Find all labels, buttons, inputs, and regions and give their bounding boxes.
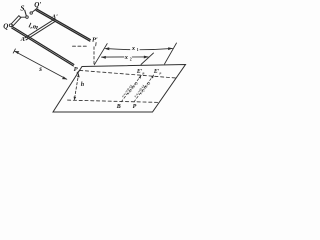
dimension x2 line [102, 56, 149, 58]
h bottom arrowhead [74, 97, 77, 101]
dimension h (dashed vertical) [74, 74, 78, 100]
tick below P' [95, 43, 97, 46]
dashed vertical from P' [93, 47, 95, 66]
diagonal 2 arrowhead [151, 75, 154, 79]
wire bottom (Q to P) double line [12, 27, 74, 66]
svg-text:B: B [116, 104, 121, 110]
wire battery to switch hinge [20, 16, 25, 18]
label x2 [124, 53, 132, 60]
plane (parallelogram) [53, 65, 186, 113]
svg-text:P: P [133, 104, 137, 110]
svg-text:A: A [20, 36, 26, 43]
s left tick [13, 49, 15, 53]
x1 right slash [165, 43, 177, 64]
diagonal 1 arrowhead [139, 75, 142, 79]
long slash at left of x dims [94, 44, 107, 65]
battery B1 (tilted rectangle) [11, 16, 21, 26]
x2 right arrowhead [144, 56, 149, 59]
x1 left arrowhead [104, 47, 109, 50]
svg-text:A′: A′ [51, 14, 58, 21]
wavefront diagonal 2 (dashed) [134, 75, 154, 102]
h top arrowhead [77, 74, 80, 78]
dimension x1 line [106, 48, 172, 49]
switch S contact circle [30, 12, 32, 14]
x2 left arrowhead [101, 56, 106, 59]
wire from contact up to line apex [32, 9, 36, 12]
label x1 [130, 45, 139, 52]
dashed horizontal left of P' [73, 45, 89, 47]
x1 right arrowhead [168, 47, 173, 50]
svg-text:B: B [141, 71, 144, 75]
tick below P [77, 70, 80, 73]
svg-text:Q: Q [3, 23, 8, 31]
svg-text:1: 1 [137, 48, 139, 52]
switch S hinge circle [26, 16, 29, 19]
wire top (Q' to P') double line [36, 9, 90, 41]
svg-text:P′: P′ [92, 37, 98, 44]
s right arrowhead [62, 76, 67, 79]
svg-text:S: S [20, 3, 24, 12]
dashed line upper (image of wire 1) [80, 70, 176, 78]
dimension s arrow [15, 51, 67, 79]
connector AA' double line [25, 19, 56, 40]
svg-text:P: P [159, 71, 161, 75]
svg-text:2: 2 [130, 57, 132, 61]
switch S blade [25, 10, 27, 16]
svg-text:Q′: Q′ [34, 1, 41, 9]
svg-text:s: s [38, 65, 42, 73]
terminal Q circle [9, 24, 12, 27]
x2 right slash [141, 53, 154, 65]
s left arrowhead [14, 51, 19, 54]
wavefront diagonal 1 (dashed) [121, 75, 141, 101]
dashed line lower (image of wire 2) [68, 100, 160, 102]
